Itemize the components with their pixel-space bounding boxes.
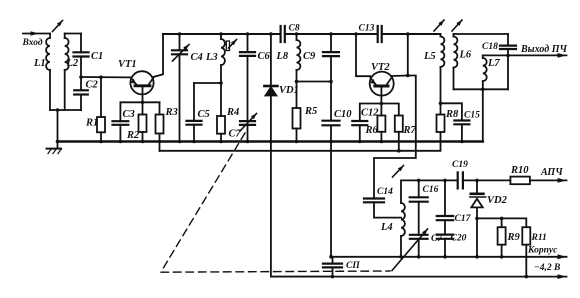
svg-text:C18: C18 [482, 42, 498, 52]
svg-text:C7: C7 [229, 129, 242, 140]
svg-text:C1: C1 [91, 51, 103, 62]
inductor L5 [423, 34, 444, 103]
tuning core arrow for L4 [393, 166, 404, 178]
wire chassis line Корпус [329, 246, 566, 260]
node L7 bottom on loop [481, 88, 485, 92]
capacitor C6 [240, 34, 271, 121]
svg-text:R11: R11 [531, 233, 547, 243]
capacitor СП (padder) [323, 257, 360, 279]
node VT2 collector junction [406, 74, 410, 78]
wire IF output Выход ПЧ [483, 44, 568, 58]
svg-text:L8: L8 [276, 51, 289, 62]
tuning core of L3 [226, 40, 236, 51]
diode VD2 [470, 180, 508, 218]
svg-text:L5: L5 [423, 51, 436, 62]
svg-text:R2: R2 [126, 130, 140, 141]
svg-text:Выход ПЧ: Выход ПЧ [520, 44, 567, 55]
transistor VT1 [118, 59, 154, 94]
node C16 top [417, 179, 421, 183]
svg-text:R7: R7 [403, 125, 417, 136]
gang link slash to osc C7 with arrow [392, 229, 428, 271]
svg-text:C6: C6 [258, 51, 271, 62]
node VD2 top [475, 179, 479, 183]
svg-text:L6: L6 [459, 50, 472, 61]
svg-text:С19: С19 [452, 160, 468, 170]
capacitor C3 [113, 102, 135, 143]
svg-text:Корпус: Корпус [527, 246, 558, 256]
resistor R11 [522, 227, 547, 278]
svg-text:L1: L1 [33, 58, 46, 69]
node C9 top rail [329, 32, 333, 36]
svg-text:C10: C10 [334, 109, 352, 120]
wire L3 bottom to C5 [194, 82, 221, 84]
capacitor C5 [187, 83, 210, 143]
svg-text:R3: R3 [165, 107, 178, 118]
wire top supply rail [163, 33, 441, 35]
resistor R4 [217, 83, 239, 143]
svg-text:−4,2 В: −4,2 В [534, 263, 560, 273]
svg-text:VT1: VT1 [118, 59, 137, 70]
inductor L7 [483, 55, 501, 141]
node C1-C2 junction [79, 75, 83, 79]
wire L8 bottom to C9 column [297, 81, 332, 83]
svg-text:R4: R4 [226, 107, 239, 118]
inductor L6 [454, 34, 472, 89]
diode VD1 [264, 34, 298, 143]
resistor R7 [381, 104, 416, 151]
wire VT2 emitter riser [356, 34, 370, 76]
dashed gang link diagonal [161, 133, 245, 272]
svg-text:C9: C9 [303, 51, 316, 62]
resistor R6 [365, 104, 386, 144]
capacitor C12 [352, 104, 381, 144]
tuning core arrow for L6 [452, 20, 462, 31]
svg-text:L3: L3 [205, 52, 218, 63]
wire VD2 node down [475, 218, 479, 258]
node R9 top [500, 217, 504, 221]
variable capacitor C7 (osc gang) [410, 234, 443, 259]
inductor L8 [276, 32, 301, 81]
svg-text:VD2: VD2 [487, 195, 508, 206]
node R1 top [99, 75, 103, 79]
capacitor C2 [74, 77, 98, 110]
wire VD2 node to R11 [477, 218, 526, 227]
svg-text:C8: C8 [289, 24, 300, 34]
resistor R9 [498, 218, 521, 258]
svg-text:АПЧ: АПЧ [540, 167, 563, 178]
svg-text:R8: R8 [445, 109, 459, 120]
node L3 bottom junction [219, 81, 223, 85]
svg-text:R5: R5 [304, 106, 317, 117]
svg-text:R9: R9 [507, 232, 521, 243]
wire VT2 base down [380, 86, 384, 105]
tuning core arrow for L5 [434, 20, 444, 31]
svg-text:R1: R1 [85, 118, 98, 129]
wire base bias line [81, 76, 131, 78]
node L8 bottom [295, 80, 299, 84]
inductor L4 [380, 203, 405, 259]
svg-text:C13: C13 [359, 24, 375, 34]
wire L2 top to C1 [65, 33, 81, 35]
wire oscillator tank top line [401, 180, 510, 203]
wire supply line -4.2V [271, 263, 567, 279]
dashed gang link horizontal [161, 271, 390, 272]
wire lower ground bus [160, 132, 441, 151]
svg-text:Вход: Вход [22, 37, 43, 48]
node VD1 top [269, 32, 273, 36]
svg-text:C15: C15 [464, 111, 480, 121]
node C18-output junction [506, 54, 510, 58]
wire base network node line [120, 101, 159, 105]
svg-text:L4: L4 [380, 222, 393, 233]
node VD2 bottom junction [475, 217, 479, 221]
capacitor C10 [323, 82, 353, 144]
wire L6 loop bottom [454, 88, 509, 90]
capacitor C14 [364, 187, 401, 218]
node C4 top [178, 32, 182, 36]
resistor R2 [126, 102, 147, 143]
capacitor C13 [359, 24, 382, 43]
svg-text:L2: L2 [66, 58, 79, 69]
node coil-bottom junction [56, 108, 60, 112]
ground chassis symbol [47, 142, 62, 154]
wire VT1 base down [142, 86, 144, 102]
inductor L2 [65, 34, 79, 111]
capacitor C9 [303, 34, 339, 82]
capacitor C8 [281, 24, 300, 43]
node VT2 emitter riser top [354, 32, 358, 36]
node R7 on lower bus [397, 149, 401, 153]
svg-text:C14: C14 [377, 187, 393, 197]
resistor R8 [437, 103, 460, 132]
svg-text:C4: C4 [191, 52, 203, 63]
capacitor C16 [410, 180, 439, 234]
variable capacitor C4 [172, 34, 203, 143]
resistor R5 [293, 82, 318, 144]
node L5-R8 junction [439, 102, 443, 106]
wire AFC output АПЧ [530, 167, 567, 183]
node L3 top [219, 32, 223, 36]
svg-text:VT2: VT2 [371, 62, 390, 73]
svg-text:C5: C5 [198, 109, 210, 120]
wire common ground rail [58, 140, 483, 143]
svg-text:СП: СП [346, 261, 360, 271]
svg-text:C2: C2 [86, 80, 99, 91]
resistor R3 [156, 102, 178, 151]
node C6 top [246, 32, 250, 36]
wire down to ground rail [56, 110, 60, 143]
capacitor C19 [452, 160, 468, 188]
svg-text:L7: L7 [487, 58, 500, 69]
inductor L3 [205, 34, 225, 83]
resistor R1 [85, 77, 105, 143]
svg-text:C17: C17 [455, 214, 472, 224]
svg-text:C20: C20 [451, 234, 467, 244]
wire collector riser to rail [406, 32, 410, 75]
tuning core arrow for L1/L2 [53, 21, 63, 32]
inductor L1 [33, 34, 50, 111]
wire collector to C14 feed [374, 76, 416, 199]
wire coil bottoms [50, 109, 81, 111]
svg-text:R10: R10 [510, 165, 529, 176]
wire L6 top to C18 [454, 33, 509, 35]
variable capacitor C7 (RF gang) [229, 114, 257, 144]
node C17 top [443, 179, 447, 183]
svg-text:C3: C3 [123, 109, 135, 120]
wire VT2 collector [392, 75, 408, 78]
node: input terminal Вход / wire [22, 31, 51, 48]
wire VT1 collector to top rail [153, 34, 163, 77]
resistor R10 [510, 165, 530, 184]
capacitor C1 [74, 34, 104, 78]
wire C10 column down to СП [330, 142, 332, 257]
node C9-C10 junction [329, 80, 333, 84]
capacitor C15 [441, 103, 481, 143]
svg-text:C16: C16 [423, 185, 439, 195]
svg-text:R6: R6 [365, 125, 379, 136]
capacitor C18 [482, 34, 516, 89]
wire VD1 column down to -4.2V line [271, 142, 331, 277]
transistor VT2 [370, 62, 394, 96]
capacitor C17 [437, 180, 472, 234]
capacitor C20 [437, 234, 467, 259]
